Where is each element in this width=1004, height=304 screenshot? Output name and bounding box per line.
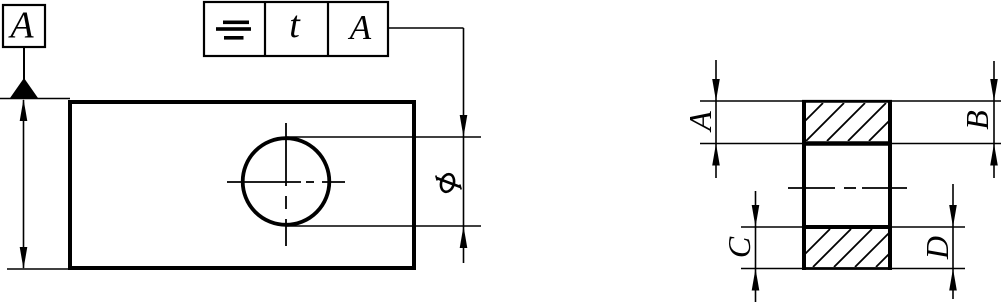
- svg-text:D: D: [919, 236, 955, 260]
- svg-text:C: C: [721, 236, 757, 258]
- svg-text:t: t: [289, 4, 301, 46]
- svg-text:A: A: [682, 111, 718, 133]
- svg-text:B: B: [959, 110, 995, 130]
- svg-text:A: A: [7, 5, 34, 47]
- svg-text:A: A: [348, 8, 372, 47]
